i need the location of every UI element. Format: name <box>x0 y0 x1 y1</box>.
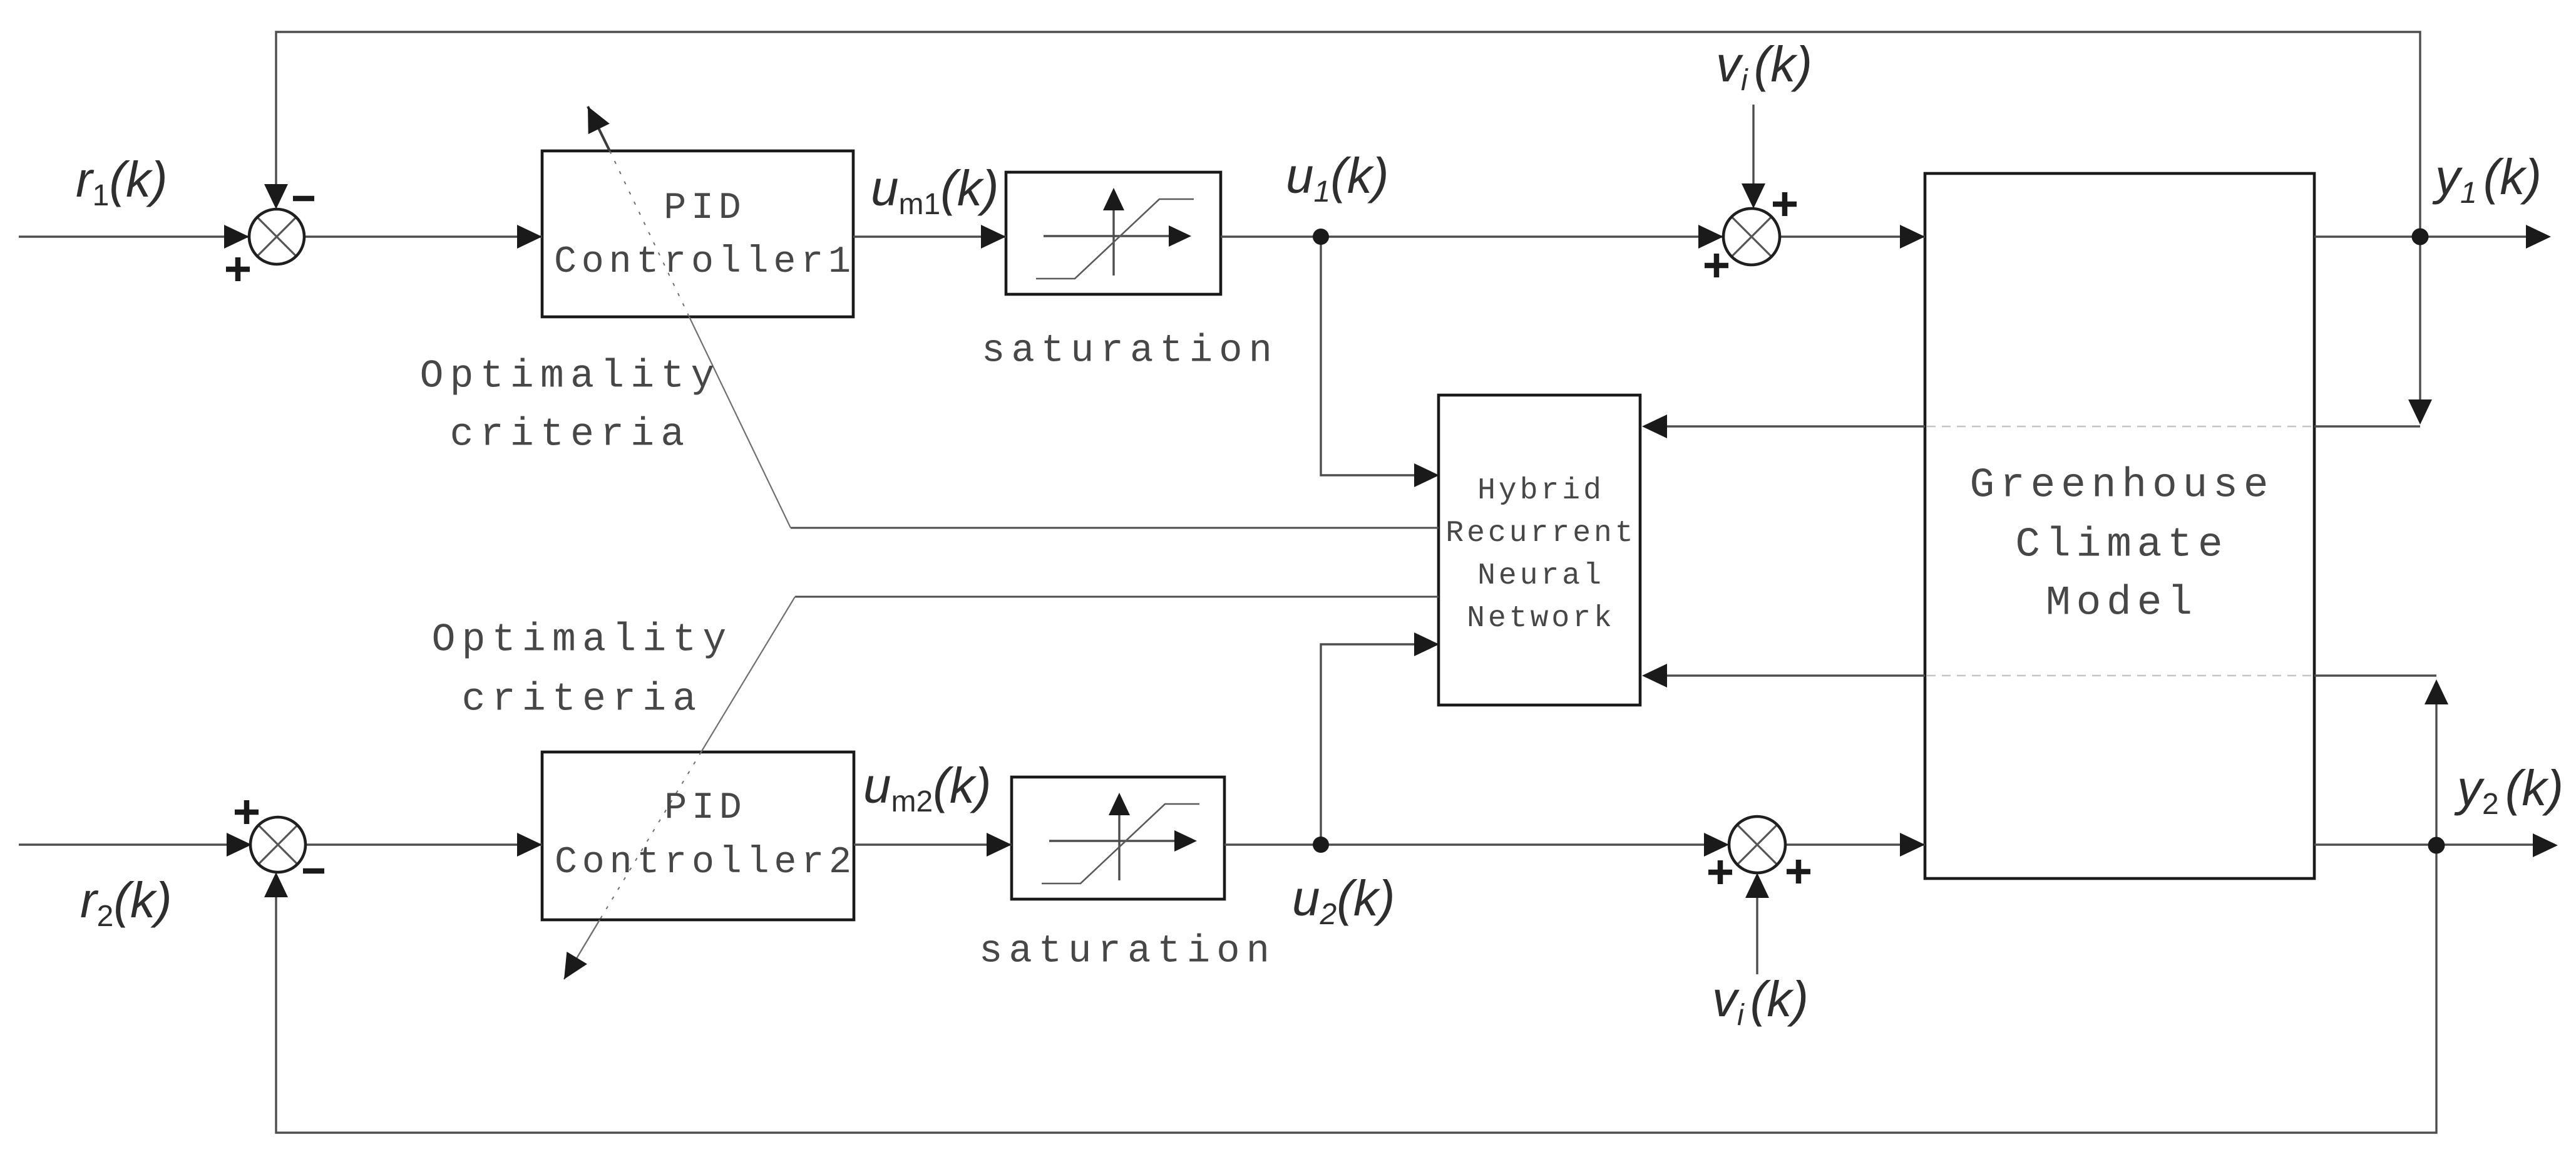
svg-text:Model: Model <box>2046 580 2198 627</box>
svg-text:y1(k): y1(k) <box>2432 149 2542 210</box>
svg-text:Controller1: Controller1 <box>554 241 856 284</box>
svg-text:Optimality: Optimality <box>420 354 721 399</box>
svg-text:u2(k): u2(k) <box>1292 870 1395 931</box>
svg-text:PID: PID <box>664 787 746 830</box>
svg-text:r1(k): r1(k) <box>76 152 168 212</box>
svg-text:y2(k): y2(k) <box>2454 760 2563 821</box>
svg-text:Greenhouse: Greenhouse <box>1969 462 2274 509</box>
svg-text:Recurrent: Recurrent <box>1445 517 1636 550</box>
svg-text:u1(k): u1(k) <box>1286 148 1388 209</box>
svg-text:r2(k): r2(k) <box>80 872 172 933</box>
svg-text:PID: PID <box>664 187 746 230</box>
svg-text:Controller2: Controller2 <box>555 842 856 884</box>
svg-text:Hybrid: Hybrid <box>1477 474 1604 508</box>
svg-text:criteria: criteria <box>462 677 703 722</box>
svg-text:criteria: criteria <box>450 413 691 457</box>
svg-text:Climate: Climate <box>2015 522 2228 569</box>
svg-text:Network: Network <box>1467 602 1615 636</box>
svg-text:vi(k): vi(k) <box>1712 971 1809 1032</box>
svg-text:saturation: saturation <box>982 329 1278 373</box>
svg-text:Neural: Neural <box>1477 559 1604 593</box>
svg-text:vi(k): vi(k) <box>1716 36 1812 97</box>
svg-text:Optimality: Optimality <box>432 618 733 662</box>
svg-text:saturation: saturation <box>979 929 1276 974</box>
